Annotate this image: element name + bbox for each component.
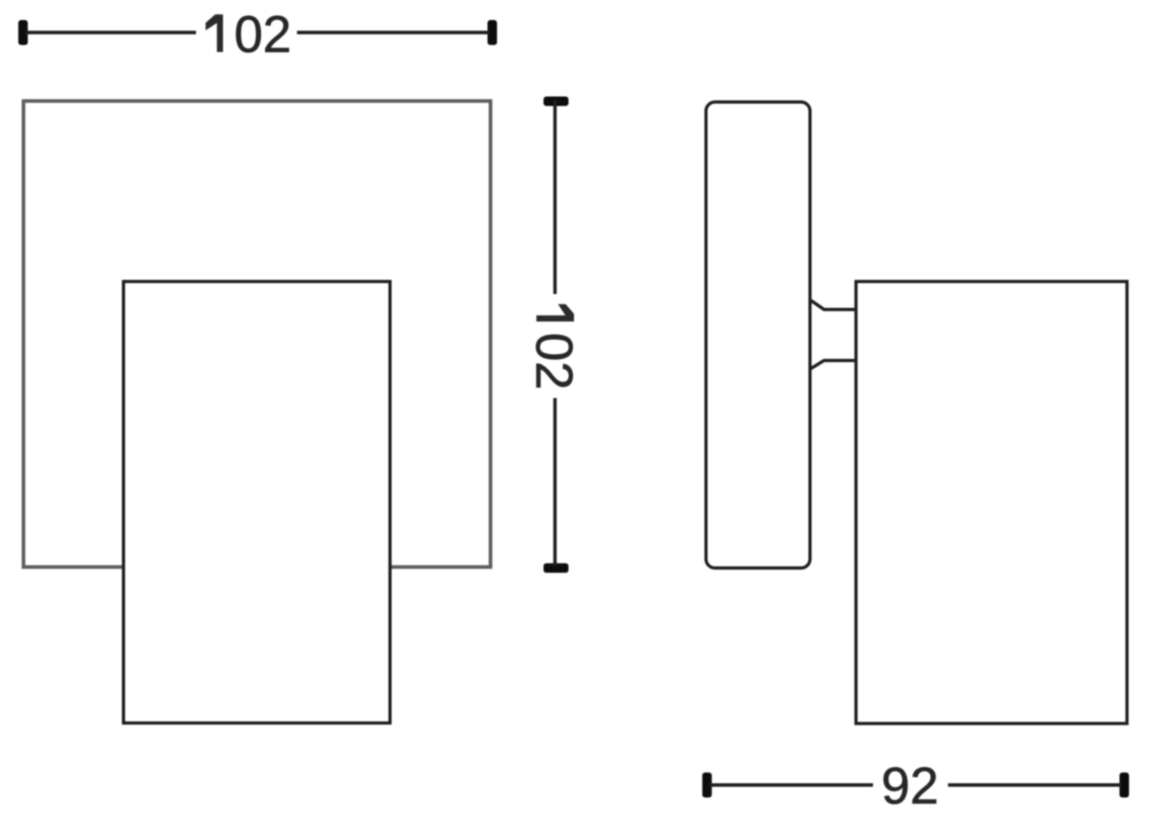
front view: lamp head rectangle (124, 282, 391, 724)
side view: wall plate (706, 102, 810, 568)
right dimension line lower segment (553, 398, 556, 566)
bottom dimension line left tick (702, 773, 712, 798)
top dimension line left segment (25, 31, 196, 34)
right dimension line top tick (544, 97, 569, 107)
top dimension line right tick (488, 20, 498, 45)
bottom dimension line right segment (948, 783, 1122, 786)
right dimension line bottom tick (544, 563, 569, 573)
side view: bracket lower arm (811, 361, 856, 369)
bottom dimension line right tick (1120, 773, 1130, 798)
bottom dimension line left segment (709, 783, 873, 786)
top dimension label 102 (206, 5, 292, 63)
top dimension line right segment (297, 31, 490, 34)
right dimension label 102 (rotated) (525, 304, 583, 390)
svg-text:92: 92 (881, 757, 938, 815)
side view: bracket upper arm (811, 301, 856, 310)
side view: lamp head rectangle (856, 282, 1127, 724)
front view: wall plate square (24, 101, 491, 567)
top dimension line left tick (18, 20, 28, 45)
right dimension line upper segment (553, 100, 556, 294)
